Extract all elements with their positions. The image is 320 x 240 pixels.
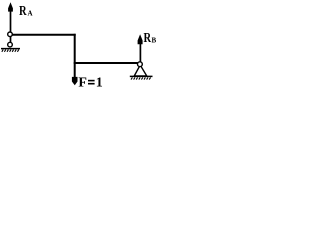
support B ground hatching (131, 77, 151, 79)
support A link bar (10, 34, 12, 45)
reaction arrow R_B head (138, 34, 143, 44)
reaction arrow R_A shaft (10, 10, 12, 33)
beam lower span (74, 62, 138, 64)
svg-text:F: F (78, 76, 87, 91)
svg-text:1: 1 (96, 76, 103, 91)
reaction arrow R_A head (8, 2, 13, 11)
support A ground line (1, 48, 20, 50)
support A lower hinge circle (8, 42, 13, 47)
reaction arrow R_B shaft (139, 42, 141, 62)
svg-text:B: B (152, 37, 157, 45)
force F arrow head (72, 77, 78, 85)
support A upper hinge circle (8, 32, 13, 37)
support B ground line (130, 75, 153, 77)
beam vertical segment at corner (74, 34, 76, 78)
svg-text:R: R (19, 4, 27, 19)
support A ground hatching (2, 50, 19, 52)
beam upper span (12, 34, 76, 36)
support B triangle (134, 65, 147, 76)
support B hinge circle (138, 62, 143, 67)
svg-text:A: A (28, 10, 33, 18)
background (0, 0, 161, 106)
